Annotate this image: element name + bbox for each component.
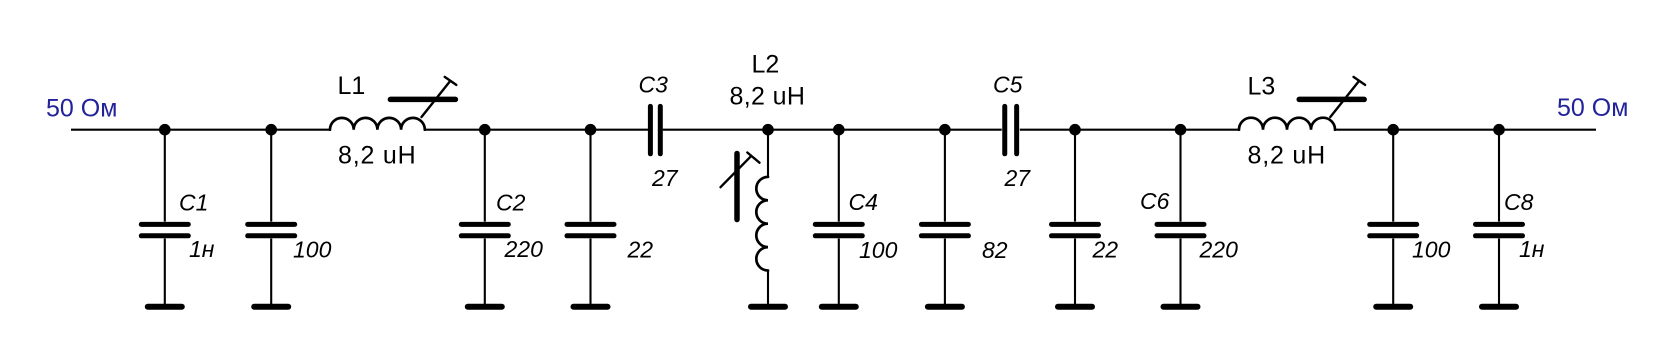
svg-text:C1: C1: [179, 190, 208, 216]
inductor L2 lead (top): [767, 130, 769, 177]
svg-text:100: 100: [293, 237, 332, 263]
svg-text:L2: L2: [752, 51, 780, 79]
capacitor C (22) eighth: [1052, 130, 1099, 305]
ground (C (100) tenth): [1376, 304, 1410, 310]
inductor L2 coil: [756, 177, 768, 271]
capacitor C (100) tenth: [1370, 130, 1417, 305]
ground (C8): [1482, 304, 1516, 310]
svg-text:220: 220: [1199, 237, 1239, 263]
wire (C3 to C5): [663, 129, 1002, 131]
inductor L2 tuning slug: [721, 153, 760, 220]
svg-text:C4: C4: [849, 189, 878, 215]
node K junction: [1493, 124, 1505, 136]
svg-text:C5: C5: [993, 71, 1023, 97]
svg-text:C8: C8: [1504, 189, 1534, 215]
capacitor C5: [1005, 106, 1017, 153]
node F junction: [833, 124, 845, 136]
node I junction: [1175, 124, 1187, 136]
capacitor C8: [1476, 130, 1523, 305]
capacitor C6: [1157, 130, 1204, 305]
node E junction: [762, 124, 774, 136]
ground (C4): [822, 304, 856, 310]
capacitor C2: [461, 130, 508, 305]
capacitor C3: [650, 106, 660, 153]
svg-text:L3: L3: [1248, 72, 1276, 100]
ground (L2): [751, 304, 785, 310]
node G junction: [939, 124, 951, 136]
svg-text:1н: 1н: [189, 236, 215, 262]
capacitor C4: [815, 130, 862, 305]
svg-text:8,2 uH: 8,2 uH: [338, 142, 416, 170]
svg-text:22: 22: [627, 237, 654, 263]
wire (node1 to C3): [425, 129, 648, 131]
svg-text:C2: C2: [496, 190, 526, 216]
node B junction: [265, 124, 277, 136]
inductor L1 tuning slug: [390, 77, 456, 117]
ground (C6): [1164, 304, 1198, 310]
ground (C2): [468, 304, 502, 310]
ground (C (82)): [928, 304, 962, 310]
inductor L3 coil: [1239, 118, 1335, 130]
inductor L3 tuning slug: [1299, 77, 1365, 117]
svg-text:82: 82: [982, 237, 1008, 263]
capacitor C (100) second: [248, 130, 295, 305]
wire (left feed): [71, 129, 330, 131]
ground (C (22) eighth): [1058, 304, 1092, 310]
ground (C (100) second): [254, 304, 288, 310]
svg-text:22: 22: [1092, 237, 1119, 263]
svg-text:8,2 uH: 8,2 uH: [1248, 142, 1326, 170]
node A junction: [159, 124, 171, 136]
svg-text:L1: L1: [338, 72, 366, 100]
node J junction: [1387, 124, 1399, 136]
inductor L2 lead (bottom): [767, 271, 769, 305]
svg-text:27: 27: [651, 165, 679, 191]
capacitor C (82): [921, 130, 968, 305]
svg-text:1н: 1н: [1519, 236, 1545, 262]
svg-text:C3: C3: [639, 71, 669, 97]
svg-text:100: 100: [1412, 237, 1451, 263]
svg-text:220: 220: [504, 236, 544, 262]
capacitor C (22) fourth: [567, 130, 614, 305]
svg-text:C6: C6: [1140, 188, 1170, 214]
inductor L1 coil: [330, 118, 425, 130]
node H junction: [1069, 124, 1081, 136]
capacitor C1: [141, 130, 188, 305]
svg-text:27: 27: [1004, 165, 1032, 191]
svg-text:100: 100: [859, 237, 898, 263]
svg-text:50 Ом: 50 Ом: [1557, 94, 1628, 122]
ground (C (22) fourth): [574, 304, 608, 310]
svg-text:8,2 uH: 8,2 uH: [730, 82, 806, 110]
node D junction: [585, 124, 597, 136]
wire (C5 to L3): [1020, 129, 1239, 131]
node C junction: [479, 124, 491, 136]
ground (C1): [148, 304, 182, 310]
wire (L3 to right port): [1335, 129, 1596, 131]
svg-text:50 Ом: 50 Ом: [46, 95, 117, 123]
